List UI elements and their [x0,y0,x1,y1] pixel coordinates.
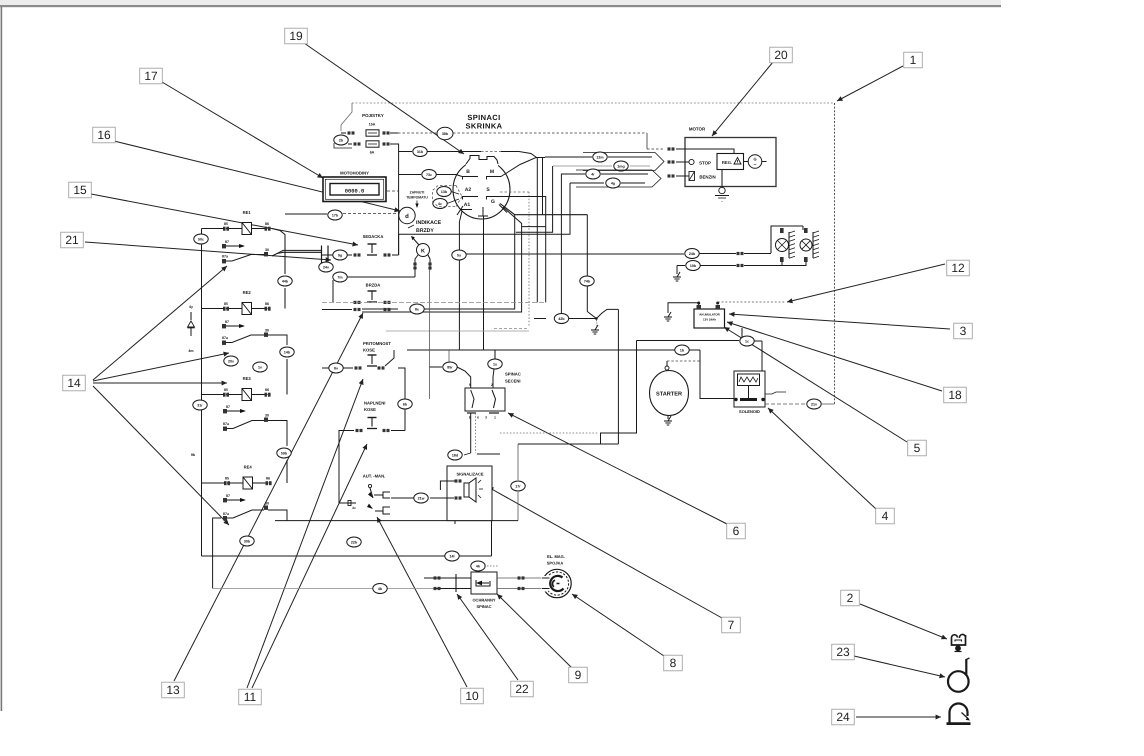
svg-text:30: 30 [265,502,269,506]
callout 5 [908,440,927,456]
wire x529 dotted [494,192,529,329]
svg-text:MOTOHODINY: MOTOHODINY [340,171,369,176]
svg-text:4y: 4y [189,305,193,309]
wire hourmeter right dashed [387,190,399,192]
svg-text:21w: 21w [418,496,425,500]
wire label 1c [740,336,754,346]
svg-text:TEMPOMATU: TEMPOMATU [406,196,428,200]
wire label 4r [586,169,600,179]
wire solenoid 21v [765,399,835,409]
ignition switch body [453,156,510,220]
indicator lamp d INDIKACE BRZDY [399,207,442,234]
svg-text:15: 15 [73,183,87,197]
ground battery [664,312,672,321]
leader line 14d [93,386,229,525]
svg-text:17r: 17r [515,484,521,488]
wire reg top [676,149,734,154]
wire G drop [362,207,522,312]
callout 24 [832,709,855,725]
wire box bottom y556 [202,521,492,556]
wire label 1mg [614,161,628,171]
diode 4y [188,305,195,336]
left bus vertical [201,229,203,557]
svg-text:85: 85 [225,477,229,481]
wire 85r [430,350,471,388]
svg-text:1s: 1s [493,362,497,366]
svg-text:KOSE: KOSE [363,348,375,353]
svg-text:86: 86 [265,388,269,392]
svg-text:10b: 10b [690,264,697,268]
wire safety right lower [497,587,542,590]
svg-text:87a: 87a [222,255,229,259]
svg-text:22: 22 [515,682,529,696]
svg-text:G: G [491,199,495,205]
fuse F1 15A [341,123,398,137]
callout 3 [954,323,973,339]
svg-text:3: 3 [960,324,967,338]
page left border [1,7,3,711]
relay RE2 contact [222,320,269,345]
wire fuse2 right [390,144,399,255]
bin full switch NAPLNENI KOSE [339,401,405,504]
wire safety left upper [424,576,471,579]
svg-text:9g: 9g [338,253,342,257]
svg-text:87a: 87a [223,422,230,426]
svg-text:KOSE: KOSE [364,407,376,412]
wire label 12m [593,152,607,162]
leader line 11b [252,444,367,688]
wire safety left lower [434,587,472,590]
svg-text:RE1: RE1 [243,210,252,215]
svg-text:20: 20 [774,48,788,62]
svg-text:3: 3 [485,416,487,420]
svg-text:1: 1 [494,416,496,420]
svg-text:21: 21 [65,233,79,247]
svg-text:15A: 15A [369,123,376,127]
leader line 4 [768,408,876,509]
brake switch BRZDA [354,283,391,312]
svg-text:SPINAC: SPINAC [505,372,521,377]
wire label 9g [333,250,347,260]
svg-text:59b: 59b [281,451,288,455]
leader line 15 [91,194,358,247]
svg-text:17: 17 [144,69,158,83]
fuse F2 6A [348,141,390,155]
relay RE4 [224,465,272,490]
wire RE3 85 to bus [202,394,225,396]
leader line 6 [508,413,727,524]
relay RE3 contact [223,405,269,431]
wire x587 branch [580,215,594,312]
svg-text:14: 14 [67,376,81,390]
leader line 12 [787,264,945,303]
svg-text:1v: 1v [258,365,262,369]
svg-text:87: 87 [226,494,230,498]
wire frame top dashed [352,102,835,104]
leader line 18 [727,321,942,391]
svg-text:8v: 8v [334,366,338,370]
callout 6 [727,523,746,539]
svg-text:24b: 24b [689,252,696,256]
svg-text:19: 19 [289,29,303,43]
wire starter to solenoid [667,350,734,399]
svg-text:17b: 17b [332,213,339,217]
plug bundle upper [545,153,664,171]
svg-text:13: 13 [166,683,180,697]
svg-text:1mg: 1mg [617,164,624,168]
mow switch SPINAC SECENI [465,372,521,420]
svg-text:13b: 13b [441,190,448,194]
wire 31b feed [399,147,538,303]
wire label 10b [677,261,782,271]
wire bus y348 [407,345,700,355]
svg-text:~: ~ [754,162,757,168]
wire label 59b [277,448,291,458]
svg-text:0000.0: 0000.0 [345,189,364,195]
svg-text:MOTOR: MOTOR [689,127,706,132]
seat switch SEDACKA [322,234,399,257]
svg-text:EL. MAG.: EL. MAG. [547,554,565,559]
svg-text:2: 2 [847,591,854,605]
svg-text:REG.: REG. [722,160,732,165]
buzzer speaker [455,478,484,502]
wire RE3 30 chain [268,421,287,484]
leader line 10 [377,517,467,687]
svg-text:86: 86 [265,302,269,306]
svg-text:OCHRANNY: OCHRANNY [472,598,495,603]
callout 9 [569,667,588,683]
wire label 5s [452,250,466,260]
ground centre [591,325,599,334]
wire S drop x545 [500,197,546,303]
svg-text:30: 30 [265,414,269,418]
wire label 31r [193,400,207,410]
svg-text:86: 86 [265,222,269,226]
leader line 23 [854,656,945,678]
svg-text:14l: 14l [450,554,455,558]
wire label 50c [194,234,208,244]
wire fuse1 to motor dashed [398,127,665,149]
wire frame left drop to fuses [341,103,352,131]
svg-text:44b: 44b [282,279,289,283]
leader line 16 [114,141,400,212]
leader line 2 [860,604,947,639]
callout 20 [770,47,793,63]
wire A1 drop 5s [459,211,462,350]
label 9b [191,453,196,457]
wire 6b riser [398,368,405,431]
callout 13 [162,682,185,698]
leader line 20 [712,62,773,136]
svg-text:12V 24Ah: 12V 24Ah [703,318,716,322]
svg-text:30b: 30b [244,539,251,543]
wire box y521 [275,517,518,524]
svg-text:AUT. -MAN.: AUT. -MAN. [363,474,386,479]
wire RE1 85 to bus [202,228,227,231]
generator G [744,155,767,169]
svg-text:1c: 1c [745,339,749,343]
svg-text:PRITOMNOST: PRITOMNOST [363,341,391,346]
wire 1s [488,350,502,388]
headlight pair [771,226,819,266]
wire bus y214 [500,204,587,215]
svg-text:SOLENOID: SOLENOID [739,409,760,414]
wire brake row gray [322,301,546,303]
svg-text:12m: 12m [596,155,603,159]
svg-text:SPINAC: SPINAC [476,604,491,609]
solenoid [734,371,765,414]
wire solenoid aux [765,392,786,394]
wire RE1 30 to seat [272,250,322,256]
wire label 4c [433,199,459,209]
svg-text:8e: 8e [415,307,419,311]
leader line 22 [457,594,518,680]
wire RE2 30 chain [268,335,287,395]
svg-text:6: 6 [733,524,740,538]
callout 2 [841,590,860,606]
leader line 14c [93,381,227,386]
svg-text:BRZDA: BRZDA [366,283,381,288]
svg-text:6: 6 [477,416,479,420]
wire 73c to switch B [399,170,462,180]
svg-text:85r: 85r [447,365,453,369]
svg-text:85: 85 [224,302,228,306]
junction tick safety [455,574,457,592]
wire seat to lamps [462,253,684,255]
svg-text:4: 4 [882,509,889,523]
callout 1 [904,52,923,68]
wire battery to solenoid 1c [637,328,763,371]
wire 42b label [554,314,568,324]
leader line 7 [488,487,722,618]
callout 15 [69,182,92,198]
svg-text:B: B [466,169,470,175]
wire buzzer lower [430,497,454,499]
leader line 1 [837,66,903,101]
engine box MOTOR [685,127,776,187]
page top rule [0,5,1001,7]
svg-text:18d: 18d [452,453,458,457]
wire label 17b [328,210,399,220]
svg-text:NAPLNENI: NAPLNENI [364,401,385,406]
wire label 4b [373,584,387,594]
svg-text:SIGNALIZACE: SIGNALIZACE [456,472,483,477]
ground engine [715,170,729,204]
svg-text:~: ~ [721,200,723,204]
svg-text:73c: 73c [426,173,432,177]
relay RE1 [223,210,271,235]
callout 8 [664,655,683,671]
svg-text:18: 18 [948,388,962,402]
wire x561 drop [560,174,562,319]
wire battery plus dashed [718,301,786,303]
junction k2 [534,309,618,326]
svg-text:BENZIN: BENZIN [699,175,715,180]
wire label 30b [240,536,254,546]
wire label 2b [334,135,352,148]
ground starter [664,416,672,426]
wire seceni down pins [464,413,476,455]
svg-text:38b: 38b [442,132,449,136]
svg-text:11: 11 [244,690,257,704]
svg-text:INDIKACE: INDIKACE [416,220,442,226]
svg-text:SPOJKA: SPOJKA [547,561,564,566]
wire 7m [333,272,415,302]
svg-text:A2: A2 [465,187,472,193]
wire RE4 30 down [268,510,287,521]
wire RE4 85 to bus [202,482,226,484]
buzzer box SIGNALIZACE [447,466,492,521]
wire brake left [322,309,352,311]
label SPINACI SKRINKA [466,113,503,131]
callout 21 [61,232,84,248]
svg-text:POJISTKY: POJISTKY [362,113,384,118]
svg-text:30: 30 [265,329,269,333]
svg-text:5: 5 [914,441,921,455]
leader line 5 [724,327,907,442]
svg-text:86: 86 [266,477,270,481]
svg-text:BRZDY: BRZDY [416,228,434,234]
callout 7 [722,617,741,633]
ground headlights [673,266,681,282]
junction tick [322,246,329,264]
engine input stubs [668,147,675,177]
wire label 21w [391,493,428,503]
svg-text:22b: 22b [351,540,358,544]
wire label 4h [471,561,499,571]
wire RE4 87a left [213,518,221,589]
leader line 9 [497,594,572,668]
starter motor [650,366,689,416]
svg-text:2v: 2v [352,506,356,510]
wire L drop [386,216,529,350]
leader line 14b [93,352,229,381]
wire frame right vertical [834,103,836,404]
safety switch OCHRANNY SPINAC [471,572,497,609]
svg-text:31r: 31r [197,403,203,407]
svg-text:85: 85 [224,222,228,226]
svg-text:1: 1 [910,53,917,67]
wire RE1 86 chain [268,229,286,309]
clamp icon item2 [951,634,965,651]
svg-text:RE4: RE4 [244,465,253,470]
wire x553 drop [516,166,553,232]
svg-text:87: 87 [225,240,229,244]
wire starter loop right [500,309,637,444]
svg-text:A1: A1 [464,202,471,208]
svg-text:24v: 24v [323,265,329,269]
svg-text:4m: 4m [188,349,193,353]
svg-text:ZAPNUTI: ZAPNUTI [410,191,425,195]
wire 17b drop [285,213,327,215]
wire label 6b [398,399,412,409]
wire x542 drop [542,157,544,215]
svg-text:RE3: RE3 [243,376,252,381]
regulator REG [717,154,744,170]
svg-text:42b: 42b [558,317,565,321]
svg-text:M: M [490,169,494,175]
wire buzzer upper [440,454,500,490]
svg-text:STARTER: STARTER [656,392,682,398]
svg-text:30: 30 [265,248,269,252]
wire safety right upper [497,576,542,579]
svg-text:SECENI: SECENI [505,379,521,384]
svg-text:K: K [421,249,425,255]
callout 19 [285,28,308,44]
plug bundle tempomat [433,186,463,207]
svg-text:SKRINKA: SKRINKA [466,122,503,131]
relay RE3 [223,376,271,401]
ignition switch pins [457,169,507,216]
label ZAPNUTI TEMPOMATU [406,191,428,209]
svg-text:31b: 31b [417,150,424,154]
label 4m [188,349,193,353]
svg-text:14b: 14b [284,350,291,354]
hour meter MOTOHODINY [323,171,386,202]
bin presence switch PRITOMNOST KOSE [322,341,394,370]
svg-text:87a: 87a [223,512,230,516]
svg-text:AKUMULATOR: AKUMULATOR [699,313,720,317]
wire bus y234 [399,183,570,255]
svg-text:85: 85 [224,388,228,392]
svg-text:5s: 5s [457,253,461,257]
battery AKUMULATOR [694,302,725,329]
wire autman left [339,495,364,506]
wire label 14b [280,347,294,357]
leader line 14a [93,266,227,380]
wire label 17r [511,444,525,521]
svg-text:50c: 50c [198,237,204,241]
svg-text:87: 87 [225,320,229,324]
callout 4 [876,508,895,524]
leader line 17 [162,82,323,178]
relay RE1 contact [222,240,269,263]
wire label 24v [319,262,333,272]
wire K right drop [429,270,431,399]
svg-text:6A: 6A [370,151,375,155]
relay RE2 [223,290,271,315]
svg-text:20v: 20v [228,359,234,363]
wire label 13b [437,187,459,197]
svg-text:SEDACKA: SEDACKA [363,234,384,239]
wire label 4g [606,178,620,188]
callout 16 [93,127,116,143]
callout 22 [511,681,534,697]
wire label 44b [278,276,292,286]
wire M to plug [501,158,545,177]
wire gray y588 [213,588,434,590]
svg-text:4g: 4g [611,181,615,185]
svg-text:STOP: STOP [699,161,711,166]
svg-text:24: 24 [836,710,850,724]
page top gray band [0,0,1001,5]
wire label 18d [448,450,462,460]
callout 10 [461,688,484,704]
leader line 21 [85,242,331,262]
svg-text:23: 23 [836,645,850,659]
leader line 19 [304,43,464,154]
leader line 11a [247,379,364,688]
engine stop input [676,159,711,165]
svg-text:10: 10 [465,689,479,703]
svg-text:87a: 87a [222,336,229,340]
wire x514 8e [362,215,515,314]
callout 23 [832,644,855,660]
leader line 24 [856,715,941,720]
svg-text:7: 7 [728,618,735,632]
label POJISTKY [362,113,384,118]
engine benzin input [676,172,716,181]
